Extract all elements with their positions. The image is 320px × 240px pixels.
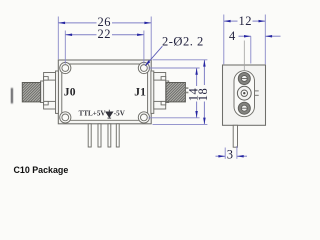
connector J0 step ring (41, 81, 44, 103)
pin 1 (main view) (88, 124, 91, 147)
svg-text:2-Ø2. 2: 2-Ø2. 2 (162, 35, 204, 49)
dim 22: dimension line with arrows (65, 34, 144, 37)
dim 18: dimension line with arrows (203, 60, 206, 125)
side view connector centerline (243, 41, 245, 71)
svg-text:12: 12 (239, 14, 253, 28)
scan artifact streak (11, 88, 13, 103)
side view pin (233, 125, 237, 147)
svg-text:22: 22 (98, 27, 112, 41)
pin 4 (main view) (116, 124, 119, 147)
connector J1 flange plate (right) (151, 71, 154, 113)
side view box (223, 65, 266, 125)
side view top screw (238, 73, 250, 85)
side view connector obround boss (234, 71, 255, 117)
dim 14: dimension line with arrows (195, 68, 198, 118)
leader arrowhead (145, 60, 150, 66)
package outer flange rectangle (26 x 18) (58, 60, 151, 124)
pin 3 (main view) (108, 124, 111, 147)
dim 3: dimension line with arrows (216, 155, 248, 158)
connector J0 threaded barrel (hatched) (22, 83, 40, 102)
dim 26: extension lines (58, 17, 151, 60)
svg-text:TTL+5V: TTL+5V (79, 110, 107, 118)
svg-text:3: 3 (227, 147, 234, 161)
dim 18: extension lines (153, 60, 208, 125)
dim 3: extension lines (225, 146, 237, 159)
dim 4: extension line (250, 36, 252, 63)
pin 2 (main view) (98, 124, 101, 147)
ground symbol (106, 110, 113, 118)
svg-text:4: 4 (229, 29, 236, 43)
side view coax connector circles (237, 86, 258, 100)
corner ear ring bottom-right (138, 112, 149, 123)
connector J1 top mounting tab (154, 73, 166, 81)
svg-text:-5V: -5V (114, 110, 126, 118)
corner ear ring top-right, mounting hole phi 2.2 (138, 62, 149, 73)
svg-text:C10 Package: C10 Package (14, 165, 69, 175)
svg-text:J0: J0 (64, 85, 76, 98)
leader line for hole callout (145, 46, 162, 66)
dim 14: extension lines (149, 68, 200, 118)
connector J0 bottom mounting tab (44, 101, 56, 109)
connector J0 top mounting tab (44, 73, 56, 81)
side view bottom screw (238, 102, 250, 114)
dim 12: dimension line with arrows (224, 20, 265, 23)
corner ear ring top-left (60, 62, 71, 73)
dim 22: extension lines (65, 31, 144, 64)
svg-text:18: 18 (196, 88, 210, 102)
dim 26: dimension line with arrows (58, 22, 151, 25)
connector J1 threaded barrel (hatched) (166, 83, 185, 102)
svg-text:J1: J1 (134, 85, 146, 98)
package lid outline (rounded) (62, 64, 148, 120)
connector J1 step ring (166, 81, 169, 103)
connector J1 center pin marks (186, 87, 189, 93)
dim 4: dimension line with arrows (239, 35, 281, 38)
corner ear ring bottom-left (60, 112, 71, 123)
dim 12: extension lines (224, 15, 265, 65)
connector J0 flange plate (left) (56, 71, 59, 113)
connector J1 bottom mounting tab (154, 101, 166, 109)
